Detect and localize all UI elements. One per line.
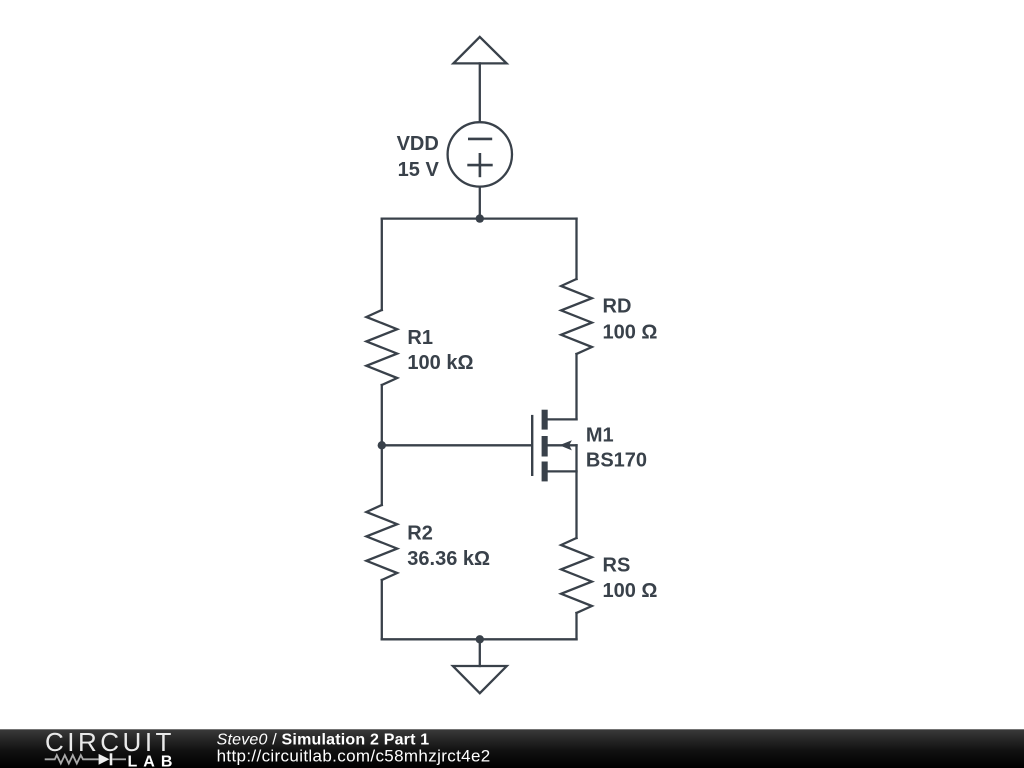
resistor RS [561,538,592,613]
svg-text:36.36 kΩ: 36.36 kΩ [407,548,490,570]
resistor R1 [366,310,397,385]
svg-text:M1: M1 [586,425,614,447]
label RD value [603,295,658,343]
voltage source V1 VDD [448,122,512,186]
resistor R2 [366,505,397,580]
wire drain horizontal [545,418,577,420]
svg-text:BS170: BS170 [586,450,647,472]
power flag VDD (top arrow) [453,37,506,64]
svg-text:http://circuitlab.com/c58mhzjr: http://circuitlab.com/c58mhzjrct4e2 [217,746,491,765]
label M1 value [586,425,647,472]
wire gate [382,444,531,446]
wire top rail to RD [575,219,577,279]
resistor RD [561,279,592,354]
wire RS to bottom rail [575,613,577,639]
wire source to top rail [479,187,481,219]
svg-text:100 Ω: 100 Ω [603,580,658,602]
wire top rail [382,217,577,219]
wire R2 to bottom rail [381,580,383,639]
svg-text:R1: R1 [407,327,433,349]
wire body horizontal [547,444,577,446]
transistor M1 channel bar body [542,436,548,457]
wire RD to drain [575,354,577,419]
logo diode [99,753,113,765]
label R1 value [407,327,473,374]
svg-text:VDD: VDD [397,133,439,155]
svg-text:100 kΩ: 100 kΩ [407,352,473,374]
wire ground stub [479,639,481,666]
wire bottom rail [382,638,577,640]
wire R1 to node A [381,385,383,505]
wire top rail to R1 [381,219,383,310]
transistor M1 channel bar source [542,462,548,482]
transistor M1 body arrow [559,440,572,450]
label VDD value [397,133,440,181]
label R2 value [407,523,490,570]
logo resistor-diode art [45,755,126,763]
wire arrow to source [479,63,481,121]
footer bar [0,729,1024,768]
wire source horizontal [545,470,577,472]
transistor M1 gate plate [531,416,533,475]
svg-text:R2: R2 [407,523,433,545]
node bottom rail junction [476,635,484,643]
svg-text:100 Ω: 100 Ω [603,321,658,343]
svg-text:LAB: LAB [128,754,179,768]
ground [453,666,507,693]
svg-text:RS: RS [603,555,631,577]
node gate junction [378,441,386,449]
svg-text:RD: RD [603,295,632,317]
node top rail junction [476,214,484,222]
label RS value [603,555,658,602]
transistor M1 channel bar drain [542,410,548,430]
wire body-source vertical [575,445,577,538]
svg-text:15 V: 15 V [398,159,440,181]
